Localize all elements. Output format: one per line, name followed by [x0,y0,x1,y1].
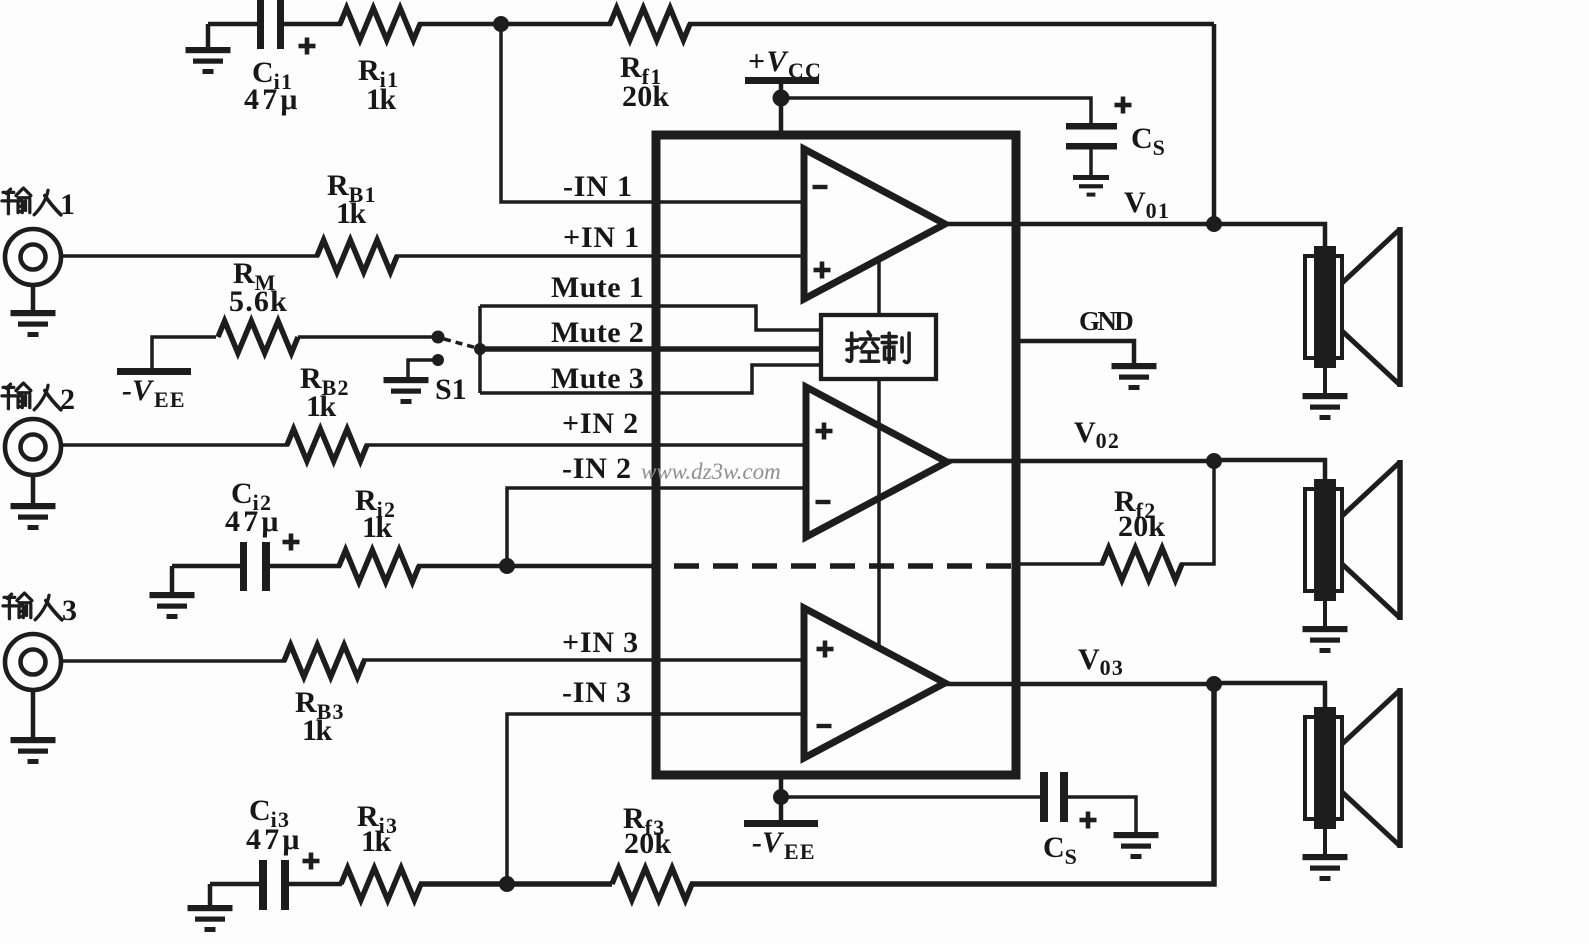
input jack 2 (shuru2) [2,383,75,530]
resistor Rf1 20k [610,8,690,113]
wire: -IN3 branch [507,714,806,884]
capacitor CS (bottom) [781,772,1136,869]
wire: -IN2 branch [507,488,806,566]
svg-text:Mute 3: Mute 3 [551,362,644,395]
GND pin [1020,306,1157,390]
svg-text:47μ: 47μ [225,505,282,538]
svg-text:1k: 1k [336,197,367,230]
ground at Ci3 [188,884,233,932]
ground under CS top [1073,175,1109,197]
svg-text:1k: 1k [306,390,337,423]
op-amp A3 [804,608,945,758]
svg-text:-IN 3: -IN 3 [562,676,632,709]
svg-text:5.6k: 5.6k [229,285,288,318]
wire: VCC to CS [781,98,1091,124]
resistor Rf2 20k [1019,461,1214,580]
resistor RB2 1k [287,362,367,461]
svg-text:1k: 1k [302,714,333,747]
svg-text:47μ: 47μ [246,823,303,856]
svg-text:47μ: 47μ [244,83,301,116]
capacitor Ci1 47u [244,0,316,116]
power -VEE (mute bias) [117,337,216,412]
resistor RB1 1k [317,169,397,272]
node: Ri2/-IN2 junction [499,558,515,574]
wire: op1 output V01 [944,216,1325,248]
speaker LS2 [1303,460,1401,653]
capacitor Ci3 47u [210,794,320,910]
wire: op2 output V02 [945,453,1325,481]
svg-text:1k: 1k [366,83,397,116]
svg-text:-V: -V [122,374,155,407]
svg-text:1k: 1k [362,511,393,544]
power -VEE (bottom) [744,779,818,864]
wire: +IN1 [60,254,806,258]
svg-text:1: 1 [60,188,75,221]
svg-text:-IN 2: -IN 2 [562,452,632,485]
wire: top row ch1 [208,24,1214,224]
svg-text:EE: EE [154,387,186,412]
resistor Ri3 1k [288,800,612,900]
resistor RB3 1k [284,645,364,747]
svg-text:+IN 3: +IN 3 [562,626,639,659]
resistor Ri2 1k [269,484,660,582]
capacitor CS (top) [1066,97,1166,177]
svg-text:2: 2 [60,383,75,416]
resistor Rf3 20k [612,684,1214,900]
node: Ri1/Rf1/-IN1 junction [493,16,509,32]
svg-text:Mute 1: Mute 1 [551,271,644,304]
input jack 3 (shuru3) [3,593,77,764]
svg-text:-IN 1: -IN 1 [563,170,633,203]
speaker LS1 [1303,227,1401,420]
svg-text:Mute 2: Mute 2 [551,316,644,349]
ground at Ci1 [186,24,231,74]
power +VCC [745,45,822,135]
IC package box [656,135,1016,775]
svg-text:www.dz3w.com: www.dz3w.com [641,459,781,484]
wire: mute bus [474,306,822,393]
svg-text:20k: 20k [624,827,671,860]
svg-text:3: 3 [62,594,77,627]
svg-text:-V: -V [752,826,785,859]
wire: +IN3 [60,660,806,661]
op-amp A2 [806,387,947,537]
wire: +IN2 [60,443,806,447]
wire: op3 output V03 [944,676,1325,709]
op-amp A1 [804,149,945,299]
input jack 1 (shuru1) [2,188,75,337]
svg-text:S1: S1 [435,373,467,406]
ground at Ci2 [150,566,195,619]
ground at CS bottom [1114,832,1159,859]
svg-text:20k: 20k [1118,510,1165,543]
control block (kongzhi) [821,262,936,648]
switch S1 [384,331,478,407]
resistor RM 5.6k [218,257,434,353]
wire: dashed internal feedback ch2 [674,563,1012,569]
resistor Ri1 1k [340,8,420,116]
wire: -IN1 feedback branch [501,24,806,202]
speaker LS3 [1303,688,1401,881]
capacitor Ci2 47u [172,477,300,591]
svg-text:+IN 1: +IN 1 [563,221,640,254]
svg-text:20k: 20k [622,80,669,113]
svg-text:+IN 2: +IN 2 [562,407,639,440]
node: Ri3/-IN3 junction [499,876,515,892]
svg-text:EE: EE [784,839,816,864]
svg-text:GND: GND [1079,306,1133,336]
svg-text:1k: 1k [361,825,392,858]
